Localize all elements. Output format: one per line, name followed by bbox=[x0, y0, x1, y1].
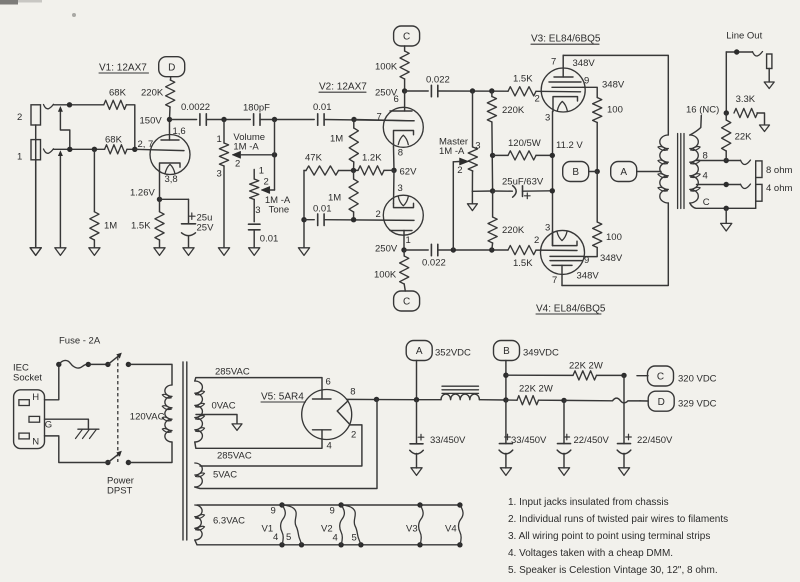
svg-text:1: 1 bbox=[259, 165, 264, 176]
fuse 2A bbox=[56, 360, 91, 368]
ground bbox=[183, 248, 194, 256]
svg-text:2. Individual runs of twisted: 2. Individual runs of twisted pair wires… bbox=[508, 514, 728, 525]
svg-text:3: 3 bbox=[255, 205, 260, 216]
svg-text:2: 2 bbox=[264, 176, 269, 187]
capacitor 25u/25V bypass bbox=[160, 199, 215, 247]
svg-text:V2: V2 bbox=[321, 523, 333, 534]
node C marker (320 VDC) bbox=[637, 366, 717, 386]
switch DPST lower pole bbox=[105, 451, 131, 465]
svg-text:0.01: 0.01 bbox=[313, 204, 332, 215]
wire master wiper to lower signal bbox=[452, 162, 454, 250]
resistor 100 screen V3 bbox=[593, 98, 623, 172]
transformer T2 output primary bbox=[658, 135, 668, 203]
speaker jack 8 ohm bbox=[741, 160, 793, 178]
svg-text:3. All wiring point to point u: 3. All wiring point to point using termi… bbox=[508, 531, 710, 542]
ground bbox=[500, 468, 511, 476]
transformer T1 HV secondary 285-0-285 bbox=[195, 366, 252, 461]
transformer T2 secondary bbox=[690, 135, 700, 203]
wire jack J2 tip to 68K bbox=[54, 102, 104, 107]
svg-text:5VAC: 5VAC bbox=[213, 469, 237, 480]
resistor 68K (input 2) bbox=[104, 88, 127, 110]
resistor 22K 2W (preamp feed) bbox=[506, 360, 624, 380]
node C marker (bottom) bbox=[394, 291, 420, 311]
speaker jack 4 ohm bbox=[741, 183, 793, 201]
wire neutral lead bbox=[45, 436, 108, 463]
svg-text:1M -A: 1M -A bbox=[439, 146, 465, 157]
svg-text:22/450V: 22/450V bbox=[574, 435, 610, 446]
svg-text:9: 9 bbox=[330, 505, 335, 516]
svg-text:3,8: 3,8 bbox=[165, 174, 178, 185]
svg-text:22K: 22K bbox=[735, 131, 753, 142]
label Power DPST bbox=[107, 475, 134, 496]
svg-text:4: 4 bbox=[703, 171, 708, 182]
svg-text:9: 9 bbox=[271, 505, 276, 516]
svg-text:5: 5 bbox=[352, 532, 357, 543]
node 1.26V cathode bbox=[130, 172, 162, 212]
svg-text:8: 8 bbox=[350, 386, 355, 397]
wire 5VAC bottom to pin 8 bbox=[195, 399, 377, 488]
svg-text:22K 2W: 22K 2W bbox=[519, 383, 553, 394]
wire V2 upper cathode to 62V node bbox=[393, 147, 396, 170]
wire HV center tap 0VAC bbox=[196, 400, 237, 423]
ground bbox=[760, 125, 770, 132]
ground bbox=[467, 204, 477, 211]
capacitor 0.01 coupling bbox=[313, 102, 332, 125]
wire HV bottom to V5 plate 2 bbox=[195, 430, 322, 448]
tube V2 triode (upper) bbox=[354, 91, 423, 158]
svg-text:9: 9 bbox=[584, 75, 589, 86]
svg-text:4: 4 bbox=[333, 532, 338, 543]
svg-text:329 VDC: 329 VDC bbox=[678, 399, 717, 410]
capacitor 22/450V (D node) bbox=[557, 400, 609, 468]
svg-text:180pF: 180pF bbox=[243, 102, 270, 113]
svg-text:3: 3 bbox=[398, 183, 403, 194]
svg-text:1. Input jacks insulated from: 1. Input jacks insulated from chassis bbox=[508, 497, 669, 508]
wire V3 screen to 100R bbox=[583, 87, 597, 97]
svg-text:3.3K: 3.3K bbox=[736, 94, 756, 105]
svg-text:22K 2W: 22K 2W bbox=[569, 360, 603, 371]
svg-text:D: D bbox=[168, 62, 175, 73]
jack J2 sleeve wire to ground bbox=[35, 125, 37, 248]
svg-text:5. Speaker is Celestion Vintag: 5. Speaker is Celestion Vintage 30, 12",… bbox=[508, 565, 718, 576]
speaker ground bbox=[725, 208, 727, 223]
resistor 100 screen V4 bbox=[584, 172, 623, 265]
svg-text:V3: EL84/6BQ5: V3: EL84/6BQ5 bbox=[531, 34, 601, 45]
transformer T1 core bbox=[183, 362, 187, 540]
capacitor 0.0022 bbox=[181, 102, 210, 125]
capacitor 0.01 tone bbox=[249, 224, 279, 248]
svg-text:C: C bbox=[657, 372, 664, 383]
wire secondary 4 ohm tap bbox=[697, 171, 741, 188]
svg-text:348V: 348V bbox=[573, 58, 596, 69]
svg-text:285VAC: 285VAC bbox=[215, 366, 250, 377]
svg-text:1M -A: 1M -A bbox=[233, 141, 259, 152]
node D rail junction bbox=[561, 398, 566, 403]
potentiometer Volume 1M-A bbox=[217, 120, 275, 248]
svg-text:0.022: 0.022 bbox=[426, 75, 450, 86]
wire 0.022 to V4 grid bbox=[438, 247, 508, 252]
transformer T1 5VAC winding bbox=[195, 463, 237, 487]
node A marker (primary CT) bbox=[611, 162, 661, 182]
svg-text:6: 6 bbox=[394, 94, 399, 105]
resistor 120/5W cathode bbox=[493, 138, 553, 160]
resistor 1.5K grid stopper V4 bbox=[508, 235, 539, 269]
resistor 68K (input 1) bbox=[105, 134, 127, 154]
svg-text:1.2K: 1.2K bbox=[362, 152, 382, 163]
notes list bbox=[508, 497, 728, 576]
label V3: EL84/6BQ5 bbox=[531, 34, 601, 45]
wire jack J1 tip to 68K bbox=[54, 147, 105, 152]
label V4: EL84/6BQ5 bbox=[536, 303, 606, 314]
svg-text:25V: 25V bbox=[197, 223, 215, 234]
svg-text:2: 2 bbox=[351, 430, 356, 441]
wire 0.01 to V2 grid bbox=[324, 117, 414, 122]
svg-text:1.26V: 1.26V bbox=[130, 188, 155, 199]
svg-text:1.5K: 1.5K bbox=[131, 221, 151, 232]
node A marker (B+ 352VDC) bbox=[406, 341, 471, 400]
tube V2 triode (lower) bbox=[383, 170, 423, 250]
ground bbox=[218, 248, 229, 256]
ground bbox=[618, 468, 629, 476]
ground bbox=[154, 248, 165, 256]
svg-text:H: H bbox=[32, 392, 39, 403]
svg-text:2: 2 bbox=[17, 112, 22, 123]
capacitor 33/450V (A) bbox=[410, 400, 466, 468]
wire V5 pin 2 to 5VAC bbox=[200, 425, 362, 466]
svg-text:8: 8 bbox=[398, 147, 403, 158]
svg-text:100: 100 bbox=[606, 232, 622, 243]
resistor 1M (upper divider) bbox=[330, 120, 358, 174]
svg-text:7: 7 bbox=[377, 112, 382, 123]
svg-text:DPST: DPST bbox=[107, 485, 133, 496]
wire 0.022 to V3 grid bbox=[438, 88, 508, 93]
choke filter bbox=[417, 386, 506, 400]
switch DPST link (dashed) bbox=[117, 357, 119, 462]
wire secondary 8 ohm tap bbox=[697, 150, 741, 163]
heater run V3 bbox=[406, 505, 423, 545]
wire line out feed bbox=[724, 49, 753, 115]
potentiometer Master 1M-A bbox=[439, 91, 481, 191]
svg-text:2: 2 bbox=[535, 94, 540, 105]
node B screen bus bbox=[563, 162, 600, 182]
ground bbox=[721, 223, 732, 231]
tube V4 EL84 (lower) bbox=[536, 223, 599, 286]
svg-text:4. Voltages taken with a cheap: 4. Voltages taken with a cheap DMM. bbox=[508, 548, 673, 559]
switch DPST upper pole bbox=[108, 353, 131, 367]
node 11.2V cathode bus bbox=[550, 112, 584, 246]
svg-text:2: 2 bbox=[534, 235, 539, 246]
svg-text:1M: 1M bbox=[328, 193, 341, 204]
svg-text:68K: 68K bbox=[109, 88, 127, 99]
ground bbox=[411, 468, 422, 476]
wire 68K to V1 grid bbox=[127, 147, 138, 152]
ground bbox=[89, 248, 100, 256]
jack J1 shorting switch to ground bbox=[58, 150, 63, 248]
capacitor 0.022 (upper) bbox=[426, 75, 450, 97]
wire secondary common tap bbox=[690, 197, 756, 211]
svg-text:33/450V: 33/450V bbox=[511, 435, 547, 446]
node 250V lower bbox=[375, 243, 407, 254]
ground bbox=[764, 82, 774, 89]
label IEC Socket bbox=[13, 362, 42, 383]
capacitor 33/450V (B) bbox=[499, 400, 547, 468]
svg-text:33/450V: 33/450V bbox=[430, 435, 466, 446]
svg-text:349VDC: 349VDC bbox=[523, 347, 559, 358]
svg-text:3: 3 bbox=[475, 141, 480, 152]
wire secondary 16 tap (NC) bbox=[686, 104, 719, 135]
svg-text:1: 1 bbox=[406, 235, 411, 246]
label V1: 12AX7 bbox=[99, 63, 149, 74]
resistor 22K line out bbox=[722, 113, 753, 161]
wire 0.01 to V2 lower grid bbox=[324, 209, 414, 223]
heater twisted pair V1 bbox=[262, 505, 302, 545]
wire 47K branch to ground bbox=[301, 171, 306, 248]
svg-text:1,6: 1,6 bbox=[173, 126, 186, 137]
svg-text:0.0022: 0.0022 bbox=[181, 102, 210, 113]
svg-text:47K: 47K bbox=[305, 152, 323, 163]
resistor 220K (lower grid leak) bbox=[488, 191, 525, 250]
svg-text:62V: 62V bbox=[400, 166, 418, 177]
svg-text:9: 9 bbox=[584, 255, 589, 266]
svg-text:220K: 220K bbox=[502, 225, 525, 236]
wire rail hop to D bbox=[564, 398, 648, 403]
svg-text:Tone: Tone bbox=[269, 204, 290, 215]
wire HV top to V5 plate bbox=[195, 378, 322, 399]
wire hot lead to fuse bbox=[45, 364, 59, 399]
resistor 220K (upper grid leak) bbox=[487, 91, 525, 191]
svg-text:V1: 12AX7: V1: 12AX7 bbox=[99, 63, 147, 74]
svg-text:Line Out: Line Out bbox=[726, 30, 762, 41]
capacitor 180pF bbox=[243, 102, 270, 125]
svg-text:4: 4 bbox=[327, 440, 332, 451]
svg-text:7: 7 bbox=[552, 275, 557, 286]
node ground bus junction bbox=[490, 153, 495, 194]
svg-text:2: 2 bbox=[457, 165, 462, 176]
svg-text:0VAC: 0VAC bbox=[212, 400, 236, 411]
svg-text:120/5W: 120/5W bbox=[508, 138, 541, 149]
svg-text:7: 7 bbox=[551, 57, 556, 68]
IEC socket body bbox=[14, 390, 53, 449]
ground bbox=[55, 248, 66, 256]
svg-text:1M: 1M bbox=[330, 133, 343, 144]
svg-text:1.5K: 1.5K bbox=[513, 73, 533, 84]
node 62V bbox=[391, 166, 417, 194]
svg-text:N: N bbox=[32, 437, 39, 448]
resistor 220K plate load bbox=[141, 80, 175, 120]
wire V3 plate to OT primary bbox=[563, 55, 668, 135]
svg-text:0.022: 0.022 bbox=[422, 258, 446, 269]
resistor 1.5K grid stopper V3 bbox=[508, 73, 540, 104]
capacitor 0.022 (lower) bbox=[422, 244, 446, 268]
wire V4 plate to OT primary bbox=[562, 203, 668, 286]
resistor 1M grid leak bbox=[90, 149, 117, 247]
svg-text:285VAC: 285VAC bbox=[217, 450, 252, 461]
svg-text:V5: 5AR4: V5: 5AR4 bbox=[261, 391, 304, 402]
tube V5 5AR4 rectifier bbox=[302, 376, 357, 451]
input jack J2 bbox=[17, 104, 54, 125]
svg-text:3: 3 bbox=[545, 113, 550, 124]
svg-text:0.01: 0.01 bbox=[313, 102, 332, 113]
capacitor 22/450V (C node) bbox=[617, 375, 673, 468]
tube V3 EL84 (upper) bbox=[536, 55, 589, 123]
svg-text:0.01: 0.01 bbox=[260, 233, 279, 244]
transformer T2 core bbox=[678, 134, 684, 209]
svg-text:V1: V1 bbox=[262, 523, 274, 534]
svg-text:C: C bbox=[703, 197, 710, 208]
line out jack bbox=[753, 52, 772, 83]
svg-text:D: D bbox=[658, 397, 665, 408]
resistor 1.2K bbox=[354, 152, 395, 175]
ground bbox=[30, 248, 41, 256]
label V2: 12AX7 bbox=[319, 82, 367, 93]
heater bus bottom bbox=[195, 540, 463, 548]
resistor 100K (upper plate) bbox=[375, 51, 409, 91]
svg-text:6.3VAC: 6.3VAC bbox=[213, 515, 245, 526]
resistor 1.5K cathode bbox=[131, 212, 164, 248]
wire 250V to 0.022 bbox=[405, 90, 429, 92]
heater run V4 bbox=[445, 505, 463, 545]
resistor 1M (lower divider) bbox=[328, 170, 358, 219]
wire 180pF to 0.01 bbox=[260, 117, 314, 122]
resistor 22K 2W (screen feed) bbox=[506, 383, 564, 404]
wire master foot to ground bbox=[472, 191, 492, 204]
svg-text:A: A bbox=[620, 167, 627, 178]
svg-text:A: A bbox=[416, 346, 423, 357]
svg-text:B: B bbox=[503, 346, 510, 357]
transformer T1 6.3VAC winding bbox=[195, 505, 245, 540]
svg-text:348V: 348V bbox=[600, 253, 623, 264]
wire switch to PT primary bottom bbox=[128, 442, 172, 463]
chassis ground (IEC G pin) bbox=[45, 419, 99, 438]
node D marker bbox=[159, 57, 185, 80]
ground bbox=[30, 248, 41, 256]
input jack J1 bbox=[17, 140, 54, 163]
capacitor 0.01 (lower) bbox=[304, 204, 332, 226]
svg-text:150V: 150V bbox=[140, 115, 163, 126]
svg-text:250V: 250V bbox=[375, 243, 398, 254]
svg-text:2: 2 bbox=[376, 209, 381, 220]
svg-text:3: 3 bbox=[545, 223, 550, 234]
svg-text:G: G bbox=[45, 419, 52, 430]
svg-text:320 VDC: 320 VDC bbox=[678, 373, 717, 384]
svg-text:22/450V: 22/450V bbox=[637, 435, 673, 446]
capacitor 25uF/63V cathode bypass bbox=[493, 176, 553, 198]
svg-text:2, 7: 2, 7 bbox=[138, 139, 154, 150]
svg-text:100K: 100K bbox=[374, 270, 397, 281]
svg-text:4 ohm: 4 ohm bbox=[766, 183, 792, 194]
resistor 3.3K line out bbox=[734, 94, 765, 124]
svg-text:C: C bbox=[403, 32, 410, 43]
svg-text:Socket: Socket bbox=[13, 372, 42, 383]
wire fuse to switch bbox=[88, 362, 110, 367]
svg-text:4: 4 bbox=[273, 532, 278, 543]
wire jack sleeves bbox=[755, 178, 757, 209]
svg-text:120VAC: 120VAC bbox=[130, 411, 165, 422]
node 250V upper bbox=[375, 87, 407, 98]
svg-text:V4: V4 bbox=[445, 523, 457, 534]
label V5: 5AR4 bbox=[261, 391, 306, 402]
heater twisted pair V2 bbox=[321, 505, 361, 545]
svg-text:C: C bbox=[403, 297, 410, 308]
node D marker (329 VDC) bbox=[648, 391, 716, 411]
svg-text:B: B bbox=[572, 167, 579, 178]
wire plate to coupling cap bbox=[170, 119, 197, 121]
ground bbox=[558, 468, 569, 476]
svg-text:8 ohm: 8 ohm bbox=[766, 165, 792, 176]
svg-text:6: 6 bbox=[326, 376, 331, 387]
svg-text:16 (NC): 16 (NC) bbox=[686, 104, 719, 115]
tube V1 12AX7 triode bbox=[135, 121, 190, 186]
svg-text:8: 8 bbox=[703, 150, 708, 161]
node C junction bbox=[621, 373, 626, 378]
transformer T1 primary 120VAC bbox=[130, 385, 172, 442]
svg-text:220K: 220K bbox=[502, 105, 525, 116]
wire lower plate to 0.022 bbox=[404, 249, 428, 251]
svg-text:220K: 220K bbox=[141, 88, 164, 99]
resistor 47K bbox=[304, 152, 354, 175]
svg-text:100K: 100K bbox=[375, 62, 398, 73]
svg-text:348V: 348V bbox=[602, 80, 625, 91]
heater bus top 6.3VAC bbox=[197, 502, 463, 507]
node B marker (B+ 349VDC) bbox=[494, 341, 560, 403]
jack J1 sleeve wire to ground bbox=[35, 160, 37, 248]
svg-text:348V: 348V bbox=[577, 271, 600, 282]
ground bbox=[232, 424, 242, 431]
resistor 100K (lower plate) bbox=[374, 250, 409, 291]
node A junction bbox=[414, 397, 419, 402]
svg-text:3: 3 bbox=[217, 168, 222, 179]
svg-text:2: 2 bbox=[235, 159, 240, 170]
svg-text:5: 5 bbox=[286, 532, 291, 543]
wire switch to PT primary bbox=[128, 364, 172, 385]
svg-text:V3: V3 bbox=[406, 523, 418, 534]
node 150V plate bbox=[140, 115, 173, 126]
ground bbox=[298, 248, 309, 256]
svg-text:Fuse - 2A: Fuse - 2A bbox=[59, 336, 101, 347]
ground bbox=[249, 248, 260, 256]
svg-text:100: 100 bbox=[607, 104, 623, 115]
svg-text:25uF/63V: 25uF/63V bbox=[502, 176, 544, 187]
wire 68K to grid node bbox=[126, 105, 134, 150]
svg-text:11.2 V: 11.2 V bbox=[556, 140, 583, 151]
wire volume wiper node bbox=[272, 120, 277, 191]
svg-text:V2: 12AX7: V2: 12AX7 bbox=[319, 82, 367, 93]
svg-text:68K: 68K bbox=[105, 134, 123, 145]
node C marker (top) bbox=[394, 26, 420, 51]
svg-text:1: 1 bbox=[17, 152, 22, 163]
svg-text:V4: EL84/6BQ5: V4: EL84/6BQ5 bbox=[536, 303, 606, 314]
svg-text:1: 1 bbox=[217, 134, 222, 145]
wire to volume node bbox=[206, 117, 250, 122]
svg-text:1M: 1M bbox=[104, 221, 117, 232]
wire V5 cathode pin 8 B+ bbox=[347, 397, 417, 402]
jack J2 shorting switch bbox=[58, 106, 70, 149]
svg-text:352VDC: 352VDC bbox=[435, 347, 471, 358]
svg-text:1.5K: 1.5K bbox=[513, 258, 533, 269]
potentiometer Tone 1M-A bbox=[250, 165, 291, 221]
